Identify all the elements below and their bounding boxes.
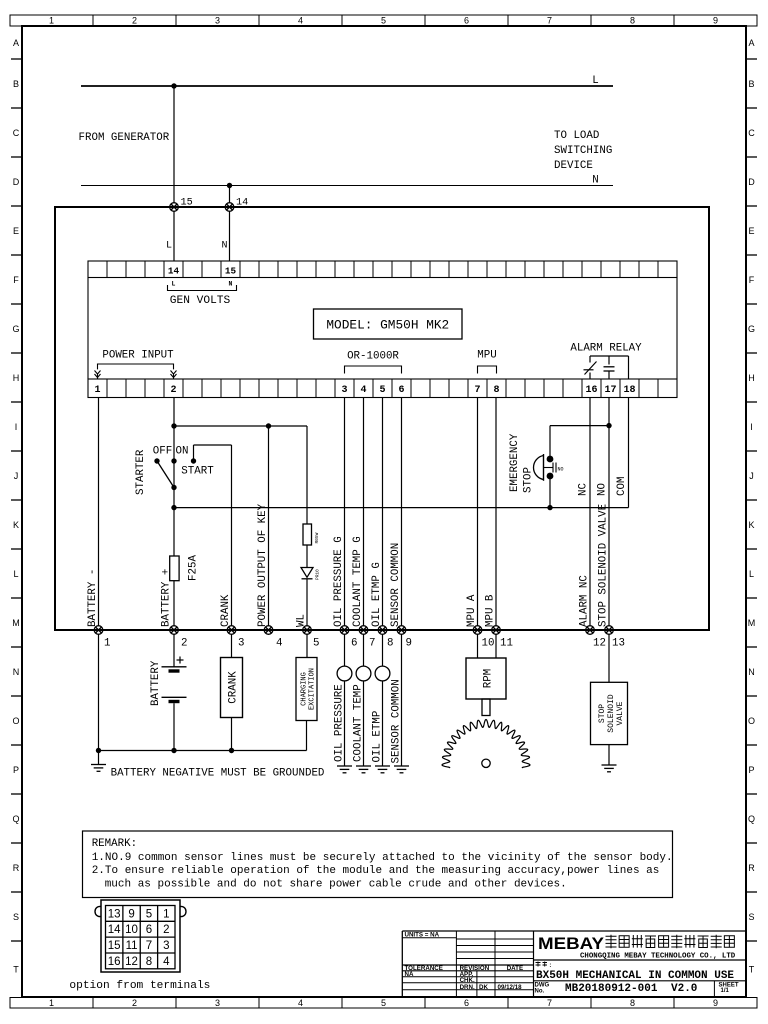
svg-text:I: I (750, 422, 753, 432)
svg-text:VALVE: VALVE (616, 701, 625, 725)
svg-text:TO LOAD: TO LOAD (554, 130, 599, 142)
svg-text:11: 11 (500, 638, 513, 650)
svg-text:16: 16 (108, 956, 121, 968)
svg-text:POWER OUTPUT OF KEY: POWER OUTPUT OF KEY (257, 503, 269, 627)
svg-text:NO: NO (597, 483, 609, 496)
svg-text:15: 15 (108, 940, 121, 952)
svg-text:STOP: STOP (598, 704, 607, 723)
svg-text:OR-1000R: OR-1000R (347, 351, 399, 363)
svg-text:C: C (748, 128, 755, 138)
svg-text:RPM: RPM (483, 669, 495, 688)
svg-text:8: 8 (146, 956, 152, 968)
svg-text:ALARM RELAY: ALARM RELAY (570, 343, 642, 355)
svg-text:3: 3 (215, 16, 220, 26)
svg-text:A: A (748, 38, 754, 48)
svg-text:SOLENOID: SOLENOID (607, 694, 616, 733)
svg-text:T: T (749, 965, 755, 975)
svg-text:UNITS = NA: UNITS = NA (405, 932, 440, 939)
svg-text:L: L (172, 281, 176, 288)
svg-text:I: I (15, 422, 18, 432)
svg-text:E: E (13, 226, 19, 236)
svg-text:16: 16 (585, 385, 597, 396)
svg-text:R: R (748, 863, 755, 873)
svg-text:G: G (12, 324, 19, 334)
svg-text:9: 9 (713, 998, 718, 1008)
svg-text:14: 14 (168, 266, 180, 277)
svg-text:H: H (748, 373, 755, 383)
svg-text:4: 4 (298, 998, 303, 1008)
svg-text:option from terminals: option from terminals (69, 980, 210, 992)
svg-text:A: A (13, 38, 19, 48)
svg-text:BX50H MECHANICAL IN COMMON USE: BX50H MECHANICAL IN COMMON USE (536, 970, 734, 982)
svg-text:P: P (13, 765, 19, 775)
svg-text:REMARK:: REMARK: (92, 838, 137, 850)
svg-text:1: 1 (163, 908, 169, 920)
svg-text:13: 13 (612, 638, 625, 650)
svg-text:J: J (14, 471, 19, 481)
svg-text:N: N (592, 175, 598, 187)
svg-text:CRANK: CRANK (228, 671, 240, 704)
svg-text:15: 15 (225, 266, 237, 277)
svg-text:14: 14 (108, 924, 121, 936)
svg-text:2: 2 (170, 385, 176, 396)
svg-text:6: 6 (398, 385, 404, 396)
svg-text:3: 3 (238, 638, 244, 650)
svg-text:7: 7 (547, 16, 552, 26)
svg-text:6: 6 (146, 924, 152, 936)
svg-text:6: 6 (464, 16, 469, 26)
svg-text:SENSOR COMMON: SENSOR COMMON (390, 543, 402, 627)
svg-text:8: 8 (387, 638, 393, 650)
svg-text:2: 2 (132, 16, 137, 26)
svg-text:10: 10 (125, 924, 138, 936)
svg-text:K: K (748, 520, 754, 530)
svg-text:9: 9 (713, 16, 718, 26)
svg-text:O: O (12, 716, 19, 726)
svg-text:L: L (592, 75, 598, 87)
svg-text:M: M (748, 618, 756, 628)
svg-text:11: 11 (126, 940, 138, 952)
svg-text:2: 2 (181, 638, 187, 650)
svg-text:EMERGENCY: EMERGENCY (509, 433, 521, 492)
svg-text:R05W: R05W (314, 532, 320, 543)
svg-text:BATTERY NEGATIVE MUST BE GROUN: BATTERY NEGATIVE MUST BE GROUNDED (111, 768, 325, 780)
svg-text:6: 6 (464, 998, 469, 1008)
svg-text:4: 4 (276, 638, 282, 650)
svg-text:09/12/18: 09/12/18 (498, 984, 523, 991)
svg-text:7: 7 (369, 638, 375, 650)
svg-text:5: 5 (381, 998, 386, 1008)
svg-text:7: 7 (547, 998, 552, 1008)
svg-text:8: 8 (630, 998, 635, 1008)
svg-text:T: T (13, 965, 19, 975)
svg-text:SENSOR COMMON: SENSOR COMMON (391, 679, 403, 763)
svg-text:3: 3 (215, 998, 220, 1008)
svg-text:N: N (222, 241, 228, 252)
svg-text:START: START (181, 466, 214, 478)
svg-text:Q: Q (12, 814, 19, 824)
svg-text:ALARM NC: ALARM NC (579, 575, 591, 627)
svg-text:1/1: 1/1 (721, 988, 730, 994)
svg-text:5: 5 (381, 16, 386, 26)
svg-text:DRN.: DRN. (460, 984, 475, 991)
svg-text:PR10: PR10 (315, 569, 321, 580)
svg-text:1.NO.9 common sensor lines mus: 1.NO.9 common sensor lines must be secur… (92, 852, 673, 864)
svg-text:7: 7 (146, 940, 152, 952)
svg-text:much as possible and do not sh: much as possible and do not share power … (105, 879, 567, 891)
svg-text:N: N (229, 281, 233, 288)
svg-text:GEN VOLTS: GEN VOLTS (170, 295, 231, 307)
svg-text:5: 5 (313, 638, 319, 650)
svg-text:12: 12 (593, 638, 606, 650)
svg-text:OIL ETMP: OIL ETMP (372, 711, 384, 763)
svg-text:S: S (13, 912, 19, 922)
svg-text:L: L (13, 569, 18, 579)
svg-text:B: B (13, 79, 19, 89)
svg-text:8: 8 (630, 16, 635, 26)
svg-text:D: D (13, 177, 20, 187)
svg-text:2.To ensure reliable operation: 2.To ensure reliable operation of the mo… (92, 865, 660, 877)
svg-text:BATTERY: BATTERY (150, 660, 162, 706)
svg-text:O: O (748, 716, 755, 726)
svg-text:9: 9 (128, 908, 134, 920)
svg-text:2: 2 (132, 998, 137, 1008)
svg-text:S: S (748, 912, 754, 922)
svg-text:NA: NA (405, 971, 414, 978)
svg-text:MPU B: MPU B (485, 594, 497, 627)
svg-text:STARTER: STARTER (135, 449, 147, 495)
svg-text:MB20180912-001: MB20180912-001 (565, 983, 658, 995)
svg-text:2: 2 (163, 924, 169, 936)
svg-text:MPU A: MPU A (466, 594, 478, 627)
svg-text:L: L (166, 241, 172, 252)
svg-text:5: 5 (146, 908, 152, 920)
svg-text:SWITCHING: SWITCHING (554, 145, 612, 157)
svg-text:R: R (13, 863, 20, 873)
svg-text:N: N (13, 667, 20, 677)
svg-text:5: 5 (379, 385, 385, 396)
svg-text:4: 4 (360, 385, 366, 396)
svg-text:17: 17 (604, 385, 616, 396)
svg-text:No.: No. (535, 988, 545, 994)
svg-text:FROM GENERATOR: FROM GENERATOR (79, 132, 170, 144)
svg-text:NO: NO (558, 467, 564, 473)
svg-text:P: P (748, 765, 754, 775)
svg-text:3: 3 (341, 385, 347, 396)
svg-text:4: 4 (298, 16, 303, 26)
svg-text:COOLANT TEMP: COOLANT TEMP (353, 684, 365, 762)
svg-text:C: C (13, 128, 20, 138)
svg-text:H: H (13, 373, 20, 383)
svg-text:12: 12 (125, 956, 138, 968)
svg-text:E: E (748, 226, 754, 236)
svg-text:3: 3 (163, 940, 169, 952)
svg-text:CRANK: CRANK (220, 594, 232, 627)
svg-text:EXCITATION: EXCITATION (309, 668, 317, 710)
svg-text:Q: Q (748, 814, 755, 824)
svg-text:CHARGING: CHARGING (301, 672, 309, 706)
svg-text:N: N (748, 667, 755, 677)
svg-text:F25A: F25A (188, 555, 200, 581)
svg-text:8: 8 (493, 385, 499, 396)
svg-text:1: 1 (49, 16, 54, 26)
svg-text:F: F (749, 275, 755, 285)
svg-text:POWER INPUT: POWER INPUT (102, 350, 174, 362)
svg-text:1: 1 (49, 998, 54, 1008)
svg-text:WL: WL (296, 614, 308, 627)
svg-text:V2.0: V2.0 (671, 983, 697, 995)
svg-text:ON: ON (176, 446, 189, 458)
svg-text:COOLANT TEMP G: COOLANT TEMP G (352, 536, 364, 627)
svg-text:BATTERY +: BATTERY + (161, 569, 173, 627)
svg-text:G: G (748, 324, 755, 334)
svg-text:B: B (748, 79, 754, 89)
svg-text::: : (549, 962, 553, 969)
svg-text:1: 1 (94, 385, 100, 396)
svg-text:STOP SOLENOID VALVE: STOP SOLENOID VALVE (598, 504, 610, 627)
svg-text:K: K (13, 520, 19, 530)
svg-text:DK: DK (479, 984, 488, 991)
svg-text:OIL ETMP G: OIL ETMP G (371, 562, 383, 627)
svg-text:DEVICE: DEVICE (554, 160, 593, 172)
svg-text:BATTERY -: BATTERY - (87, 569, 99, 627)
svg-text:D: D (748, 177, 755, 187)
svg-text:MEBAY: MEBAY (538, 935, 604, 953)
svg-text:10: 10 (482, 638, 495, 650)
svg-text:COM: COM (616, 477, 628, 496)
svg-text:OFF: OFF (153, 446, 172, 458)
svg-text:OIL PRESSURE: OIL PRESSURE (334, 684, 346, 762)
svg-text:NC: NC (578, 483, 590, 496)
svg-text:L: L (749, 569, 754, 579)
svg-text:9: 9 (406, 638, 412, 650)
svg-text:6: 6 (351, 638, 357, 650)
svg-text:1: 1 (104, 638, 110, 650)
svg-text:STOP: STOP (523, 467, 535, 493)
svg-text:4: 4 (163, 956, 170, 968)
svg-text:F: F (13, 275, 19, 285)
svg-text:CHK.: CHK. (460, 977, 475, 984)
svg-text:DATE: DATE (507, 965, 523, 972)
svg-text:18: 18 (623, 385, 635, 396)
svg-text:M: M (12, 618, 20, 628)
svg-text:MPU: MPU (477, 350, 496, 362)
svg-text:CHONGQING MEBAY TECHNOLOGY CO.: CHONGQING MEBAY TECHNOLOGY CO., LTD (580, 953, 736, 961)
svg-text:7: 7 (474, 385, 480, 396)
svg-text:MODEL: GM50H MK2: MODEL: GM50H MK2 (326, 318, 449, 333)
svg-text:J: J (749, 471, 754, 481)
svg-text:13: 13 (108, 908, 121, 920)
svg-text:OIL PRESSURE G: OIL PRESSURE G (333, 536, 345, 627)
